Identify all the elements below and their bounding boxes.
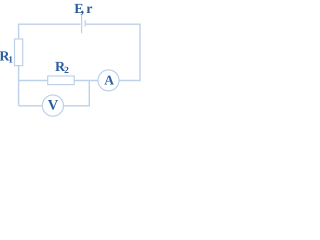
battery E, r (long and short plates) — [82, 15, 86, 33]
svg-text:A: A — [104, 73, 114, 88]
svg-text:V: V — [48, 98, 59, 114]
wire: bottom branch through voltmeter, up to middle branch — [19, 81, 90, 106]
svg-text:R1: R1 — [0, 49, 13, 65]
voltmeter V (circle) — [42, 95, 63, 116]
wire: left loop (battery left terminal to top-left corner, down left side) — [19, 24, 81, 106]
svg-text:r: r — [86, 2, 92, 17]
wire: middle branch from left side through R2 to ammeter — [19, 80, 99, 82]
svg-text:R2: R2 — [55, 60, 69, 76]
resistor R2 (box) — [48, 76, 74, 85]
ammeter A (circle) — [98, 70, 119, 91]
resistor R1 (box) — [15, 39, 23, 66]
svg-text:,: , — [81, 2, 85, 17]
wire: right loop (battery right terminal to top-right corner, down to ammeter) — [85, 24, 140, 80]
